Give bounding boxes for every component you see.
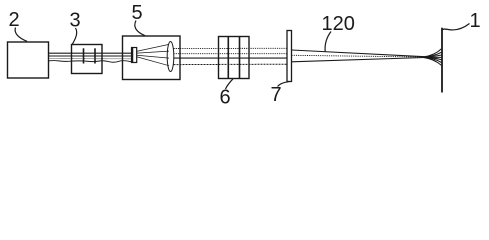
fan line f1 [137, 44, 169, 51]
converging beam c2 [292, 55, 425, 57]
diverging fan from slit to lens [137, 44, 169, 65]
beam line b1 [174, 47, 288, 49]
focus flare at screen [424, 49, 442, 66]
flare bottom edge [424, 58, 442, 66]
plate bar in box 6 (left) [227, 37, 229, 79]
flare top edge [424, 49, 442, 57]
slit left thick edge [131, 48, 133, 63]
light source box 2 [8, 42, 49, 78]
etalon box 6 [219, 37, 250, 79]
plate bar in box 6 (right) [239, 37, 241, 79]
flare inner line 5 [424, 57, 442, 62]
screen 1 [441, 28, 443, 93]
beam line b3 [174, 57, 288, 59]
flare inner line 2 [424, 55, 442, 57]
beam lines from source to slit [49, 53, 132, 62]
beam line a3 [49, 58, 132, 60]
leader for label 7 [278, 82, 289, 87]
lens ellipse in box 5 [167, 42, 174, 72]
beam lines from lens to plate 7 [174, 48, 288, 64]
collimator unit box 5 [123, 36, 181, 80]
slit aperture in box 5 [132, 48, 137, 63]
leader for label 120 [325, 32, 331, 52]
converging beam c3 [292, 58, 425, 62]
svg-text:6: 6 [220, 87, 231, 109]
plate bar in box 3 (left) [83, 48, 85, 63]
beam line a4 [49, 61, 132, 63]
leader for label 2 [15, 28, 27, 42]
svg-text:5: 5 [132, 2, 143, 24]
optical element box 3 [72, 45, 103, 74]
svg-text:120: 120 [322, 13, 355, 35]
beam line b2 [174, 53, 288, 55]
beam line b4 [174, 63, 288, 65]
fan line f2 [137, 51, 169, 53]
leader for label 1 [442, 24, 469, 30]
leader for label 6 [226, 79, 234, 89]
svg-text:2: 2 [9, 9, 20, 31]
beam line a1 [49, 52, 132, 54]
flare inner line 1 [424, 52, 442, 57]
fan line f3 [137, 55, 169, 58]
fan line f4 [137, 57, 169, 66]
svg-text:3: 3 [70, 10, 81, 32]
flare inner line 4 [424, 57, 442, 59]
svg-text:1: 1 [470, 10, 481, 32]
converging beam c1 [292, 50, 425, 57]
plate 7 [287, 31, 292, 82]
flare inner line 3 [424, 56, 442, 58]
leader for label 3 [72, 28, 76, 44]
beam line a2 [49, 55, 132, 57]
plate bar in box 3 (right) [94, 48, 96, 63]
svg-text:7: 7 [271, 84, 282, 106]
leader for label 5 [135, 21, 145, 36]
